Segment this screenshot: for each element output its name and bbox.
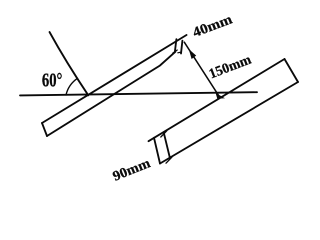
tick slash 40mm bottom xyxy=(173,50,177,53)
upper bar top edge xyxy=(42,35,187,123)
arrowhead 150mm bottom xyxy=(216,93,225,99)
svg-text:150mm: 150mm xyxy=(207,52,254,82)
wire reference line (horizontal axis) xyxy=(20,92,257,95)
upper bar left end cut xyxy=(42,123,47,136)
upper bar right end cut xyxy=(175,39,177,52)
lower bar bottom edge xyxy=(160,82,298,164)
lower bar left end cut xyxy=(154,138,160,164)
dimension line 150mm xyxy=(184,42,218,95)
wire 60-degree inclined construction line xyxy=(50,32,89,95)
lower bar right end cut xyxy=(285,59,299,82)
svg-text:90mm: 90mm xyxy=(111,156,153,185)
arrowhead 150mm top xyxy=(189,49,197,59)
dimension tick line 40mm xyxy=(181,41,182,54)
node angle arc 60deg xyxy=(66,78,78,95)
svg-text:60°: 60° xyxy=(42,70,63,92)
dimension tick line 90mm xyxy=(164,133,170,158)
lower bar top edge xyxy=(149,59,285,141)
upper bar bottom edge xyxy=(47,52,175,136)
tick slash 90mm top xyxy=(161,131,167,137)
svg-text:40mm: 40mm xyxy=(191,12,235,41)
tick foot dash below 40mm tick xyxy=(178,51,181,54)
tick slash 90mm bottom xyxy=(166,157,172,163)
